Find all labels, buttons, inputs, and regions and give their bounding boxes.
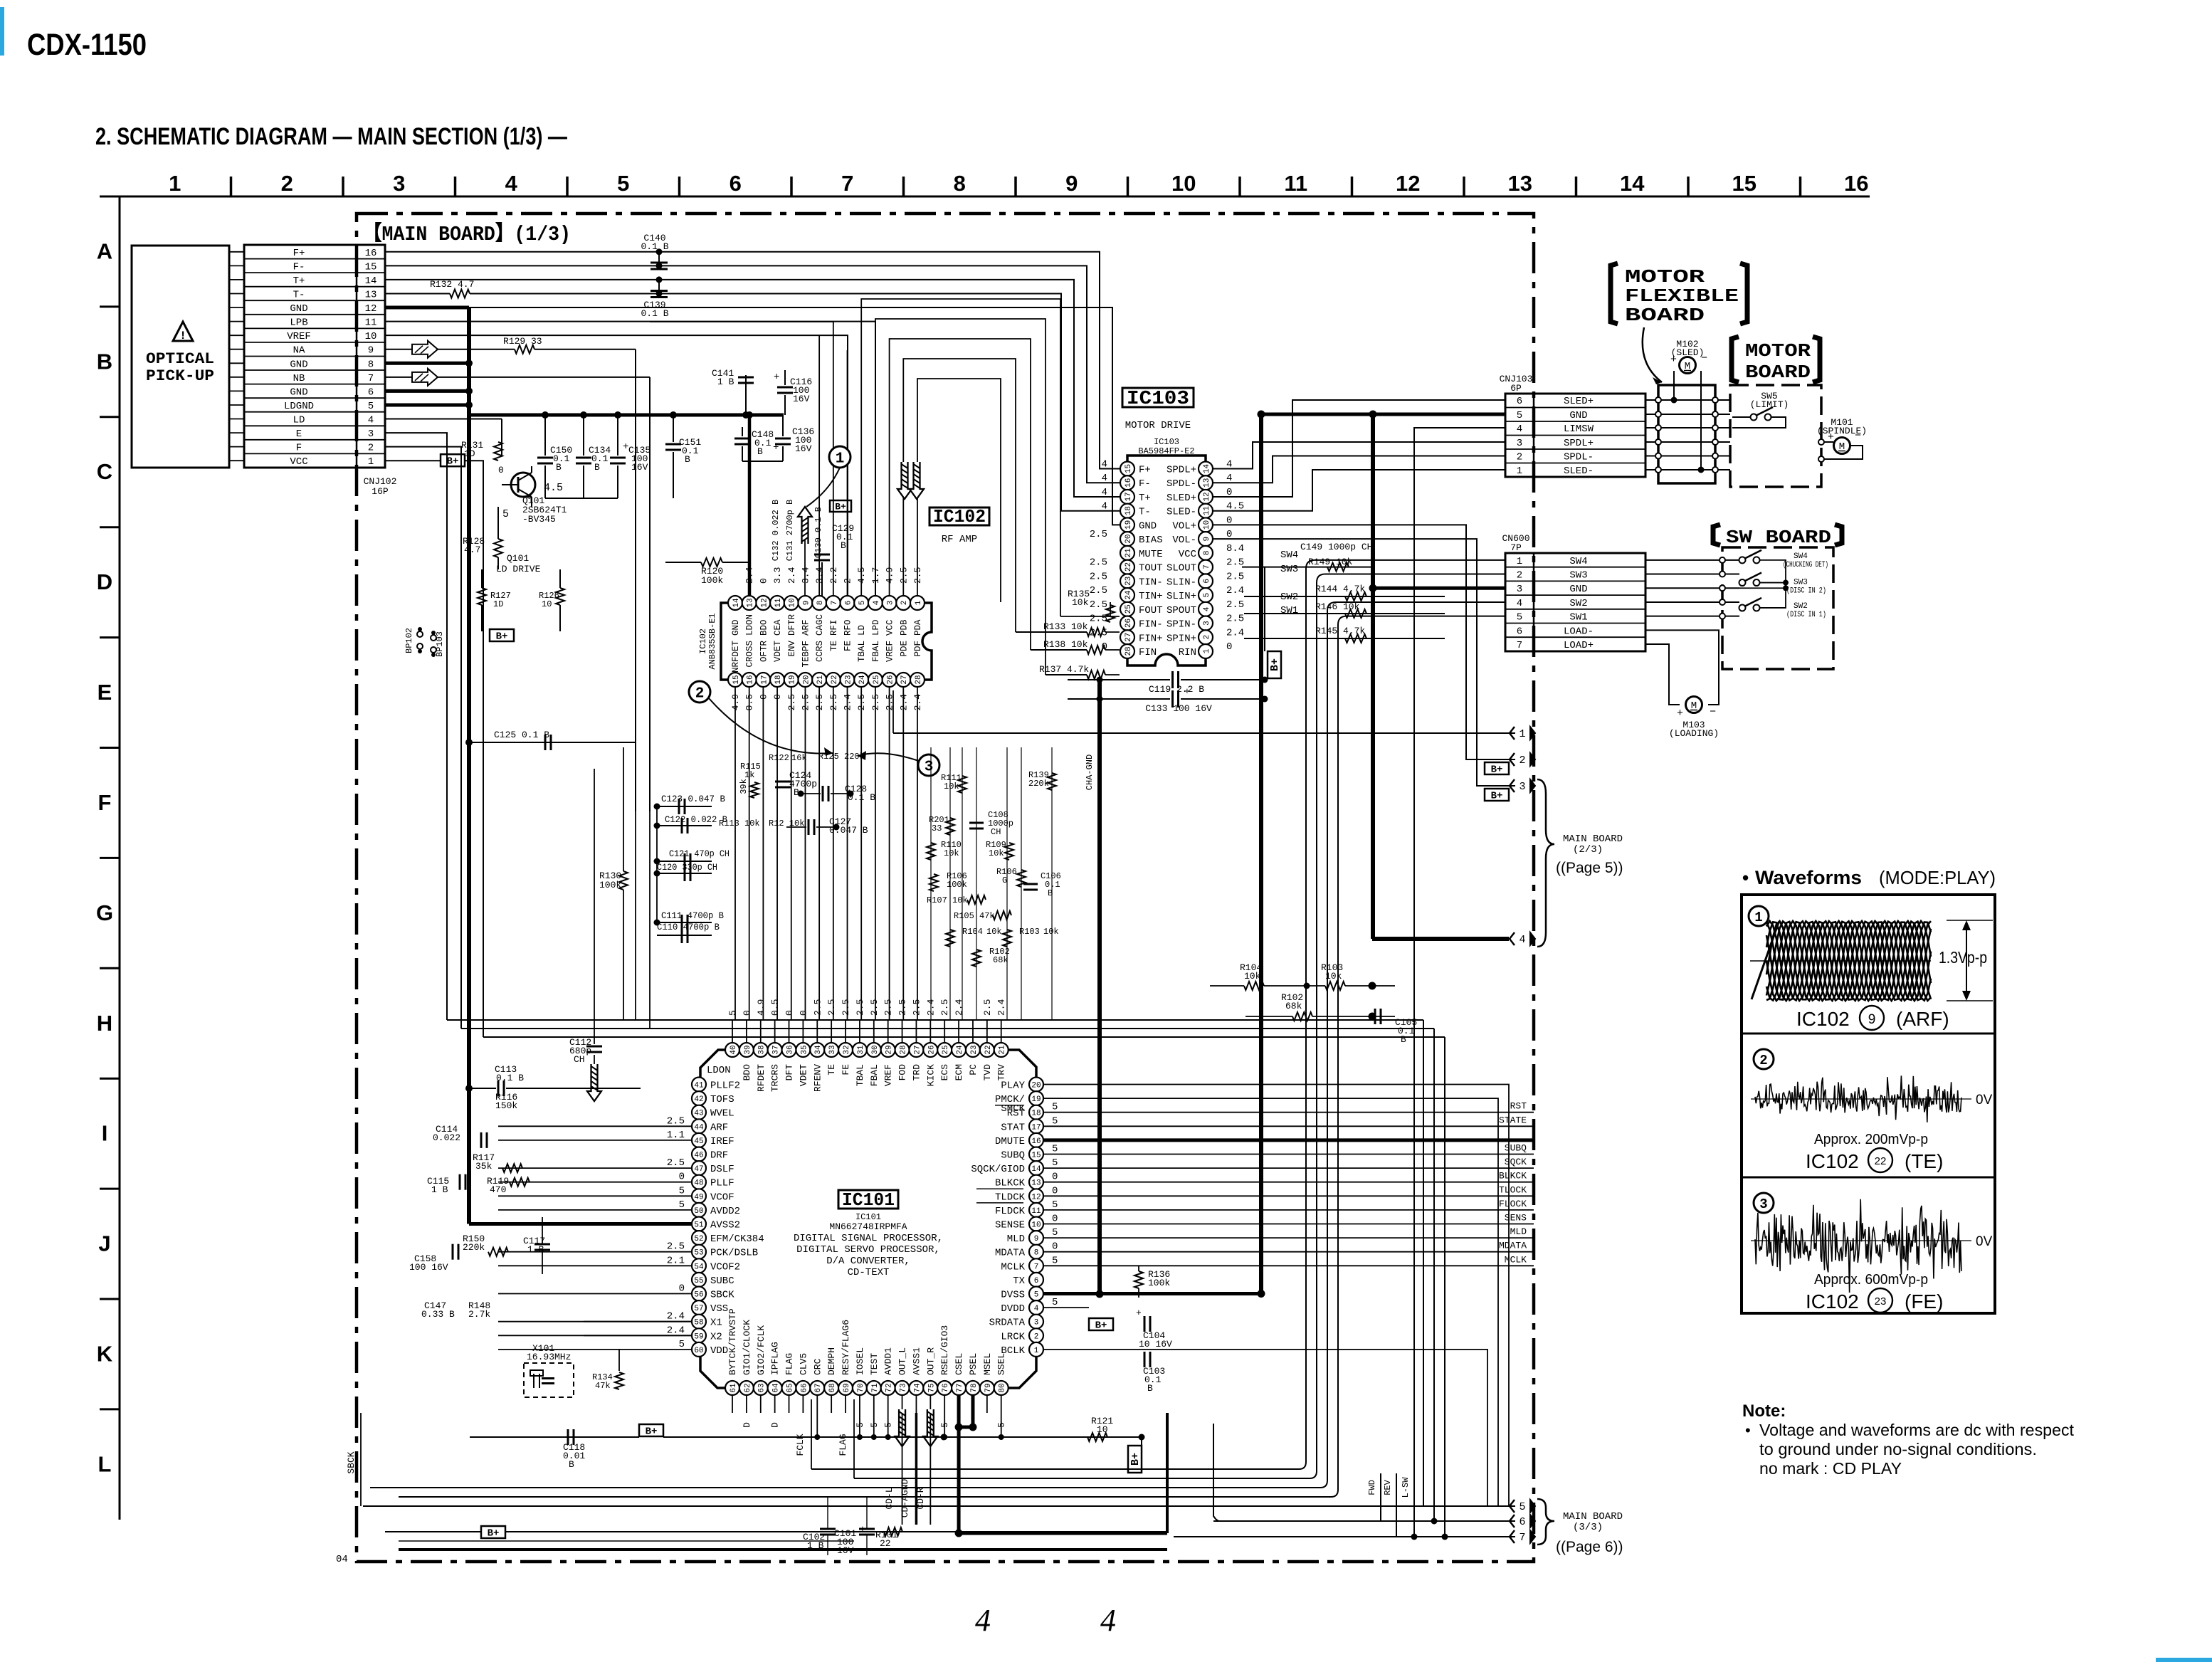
wire bundle IC102 upper mid: [847, 350, 848, 596]
svg-text:10k: 10k: [989, 848, 1004, 858]
IC103 label box: [1122, 388, 1194, 407]
svg-text:CLV5: CLV5: [798, 1353, 809, 1375]
svg-text:4.5: 4.5: [544, 482, 563, 494]
svg-text:CRC: CRC: [812, 1358, 823, 1375]
svg-text:4: 4: [1203, 606, 1211, 611]
svg-text:100k: 100k: [701, 575, 723, 586]
svg-text:to ground under no-signal cond: to ground under no-signal conditions.: [1759, 1440, 2037, 1458]
svg-text:75: 75: [927, 1383, 936, 1392]
svg-text:6: 6: [1203, 579, 1211, 584]
svg-text:LDON: LDON: [707, 1065, 731, 1076]
svg-text:C132 0.022 B: C132 0.022 B: [771, 500, 781, 561]
svg-text:4.9: 4.9: [756, 999, 767, 1016]
svg-text:10k: 10k: [944, 782, 959, 791]
svg-text:0.1 B: 0.1 B: [496, 1073, 524, 1083]
svg-text:OPTICAL: OPTICAL: [146, 350, 214, 368]
wires LOAD to M103: [1645, 630, 1719, 705]
svg-text:0: 0: [1052, 1214, 1058, 1225]
svg-text:14: 14: [1620, 171, 1645, 196]
svg-text:3.4: 3.4: [814, 567, 825, 584]
svg-text:2: 2: [1519, 754, 1525, 767]
svg-text:17: 17: [760, 675, 769, 684]
svg-text:AVSS2: AVSS2: [710, 1220, 740, 1231]
svg-text:2.5: 2.5: [1090, 599, 1107, 611]
IC101 pins top: [725, 1043, 1008, 1057]
svg-text:8: 8: [1034, 1249, 1039, 1258]
svg-text:SPDL+: SPDL+: [1564, 438, 1594, 449]
wire E: [385, 433, 447, 1020]
svg-text:5: 5: [858, 601, 867, 606]
svg-text:C122 0.022 B: C122 0.022 B: [665, 814, 727, 825]
svg-text:5: 5: [617, 171, 629, 196]
svg-text:19: 19: [1125, 520, 1133, 530]
svg-text:F-: F-: [293, 261, 305, 273]
svg-text:1: 1: [1519, 728, 1525, 740]
svg-text:0.1 B: 0.1 B: [641, 241, 668, 252]
svg-text:4: 4: [368, 415, 374, 426]
svg-text:((Page 5)): ((Page 5)): [1556, 860, 1623, 876]
svg-text:B+: B+: [1095, 1320, 1107, 1332]
svg-text:−: −: [1701, 352, 1707, 364]
capacitor C116 100 16V: [784, 370, 786, 385]
IC101 body: [700, 1050, 1036, 1388]
svg-text:27: 27: [900, 675, 909, 684]
svg-text:100k: 100k: [599, 880, 621, 890]
svg-text:2: 2: [695, 686, 705, 703]
svg-text:TE: TE: [826, 1064, 837, 1075]
svg-text:K: K: [97, 1342, 113, 1367]
svg-text:5: 5: [1052, 1255, 1058, 1266]
svg-text:no mark : CD PLAY: no mark : CD PLAY: [1759, 1459, 1902, 1478]
svg-text:16V: 16V: [631, 462, 648, 473]
svg-text:18: 18: [1031, 1110, 1041, 1118]
svg-text:Approx. 600mVp-p: Approx. 600mVp-p: [1814, 1272, 1928, 1288]
svg-text:2.5: 2.5: [869, 999, 880, 1016]
wire LPB to IC102: [385, 322, 875, 596]
IC103 pins left: [1120, 462, 1134, 658]
svg-text:41: 41: [694, 1081, 704, 1090]
svg-text:RFDET: RFDET: [756, 1064, 767, 1092]
svg-text:2.5: 2.5: [1090, 557, 1107, 569]
svg-text:C110 4700p B: C110 4700p B: [657, 922, 720, 932]
svg-text:(TE): (TE): [1905, 1150, 1943, 1172]
svg-text:BDO: BDO: [759, 619, 769, 636]
svg-text:DMUTE: DMUTE: [995, 1136, 1025, 1147]
svg-text:2.5: 2.5: [667, 1115, 685, 1127]
svg-text:PLLF: PLLF: [710, 1178, 734, 1189]
svg-text:23: 23: [1875, 1295, 1887, 1308]
svg-text:FIN: FIN: [1139, 647, 1157, 658]
svg-text:SPOUT: SPOUT: [1166, 605, 1196, 616]
svg-text:21: 21: [816, 675, 825, 685]
svg-text:9: 9: [1034, 1235, 1039, 1243]
svg-text:X1: X1: [710, 1317, 722, 1329]
svg-text:34: 34: [814, 1045, 823, 1055]
svg-text:2: 2: [281, 171, 293, 196]
svg-text:10k: 10k: [1244, 971, 1261, 982]
svg-text:VSS: VSS: [710, 1303, 728, 1315]
svg-text:150k: 150k: [495, 1100, 517, 1111]
svg-text:B: B: [97, 349, 112, 374]
switch SW3 (DISC IN 2): [1739, 579, 1746, 586]
svg-text:16V: 16V: [793, 394, 810, 404]
svg-text:2.5: 2.5: [1226, 614, 1244, 625]
svg-text:26: 26: [1125, 619, 1133, 628]
svg-text:69: 69: [843, 1383, 851, 1392]
svg-text:TIN-: TIN-: [1139, 577, 1163, 588]
hatched arrows pair: [897, 462, 912, 499]
svg-text:ANB835SB-E1: ANB835SB-E1: [707, 613, 717, 669]
svg-text:LIMSW: LIMSW: [1564, 424, 1594, 435]
svg-text:B: B: [685, 454, 690, 465]
wires IC103 left lower: [1060, 616, 1120, 617]
SW board dashed box: [1722, 547, 1833, 669]
svg-text:REV: REV: [1383, 1479, 1393, 1495]
svg-text:6: 6: [1517, 396, 1522, 407]
svg-text:PC: PC: [968, 1064, 979, 1075]
svg-text:MAIN BOARD: MAIN BOARD: [1563, 833, 1623, 845]
svg-text:LD DRIVE: LD DRIVE: [496, 564, 541, 574]
svg-text:12: 12: [1031, 1193, 1041, 1201]
svg-text:R107 10k: R107 10k: [927, 895, 968, 905]
svg-text:5: 5: [1052, 1102, 1058, 1113]
svg-text:C125 0.1 B: C125 0.1 B: [494, 730, 549, 740]
svg-text:15: 15: [732, 675, 741, 684]
svg-text:72: 72: [885, 1383, 894, 1392]
svg-text:5: 5: [1052, 1297, 1058, 1308]
page connector chevron 5: [1510, 1500, 1515, 1513]
svg-text:9: 9: [1065, 171, 1078, 196]
switch SW4 (CHUCKING DET): [1739, 557, 1746, 563]
IC101 top pin stubs: [732, 1020, 1001, 1043]
wire DVSS bold: [1043, 1292, 1261, 1295]
wire LD: [385, 419, 502, 420]
svg-text:16: 16: [1844, 171, 1868, 196]
svg-text:F-: F-: [1139, 478, 1151, 490]
svg-text:DFT: DFT: [784, 1064, 795, 1081]
svg-text:(FE): (FE): [1905, 1290, 1943, 1313]
wire F- CNJ102 to IC103 pin16: [385, 265, 1120, 483]
svg-text:13: 13: [1203, 478, 1211, 488]
svg-text:GND: GND: [1569, 584, 1587, 595]
wire bottom bold rail: [399, 1548, 1167, 1551]
svg-text:ENV: ENV: [787, 641, 797, 657]
svg-text:PLAY: PLAY: [1001, 1080, 1025, 1092]
motor M103 (LOADING): [1686, 697, 1702, 713]
svg-text:1: 1: [836, 451, 845, 468]
capacitor C134 0.1 B: [583, 415, 584, 456]
svg-text:LRCK: LRCK: [1001, 1331, 1025, 1342]
svg-text:13: 13: [365, 290, 377, 301]
svg-text:4: 4: [1517, 424, 1522, 435]
svg-text:R122: R122: [769, 753, 789, 763]
svg-text:MDATA: MDATA: [1499, 1241, 1527, 1251]
svg-text:22: 22: [984, 1045, 993, 1054]
wire SLED+ IC103 to CNJ103: [1213, 400, 1505, 497]
svg-text:27: 27: [913, 1045, 922, 1054]
IC103 pins right: [1199, 462, 1213, 658]
svg-text:VCC: VCC: [1179, 549, 1196, 560]
svg-text:47k: 47k: [595, 1381, 611, 1391]
B+ box above IC102: [830, 500, 851, 512]
capacitor C125 0.1 B: [469, 742, 636, 743]
svg-text:53: 53: [694, 1249, 703, 1258]
svg-text:VDD: VDD: [710, 1345, 728, 1357]
page connector chevron 7: [1510, 1530, 1515, 1543]
wire VREF to IC102: [385, 335, 848, 596]
svg-text:STAT: STAT: [1001, 1122, 1025, 1133]
IC101 bottom voltages: [742, 1422, 1007, 1439]
svg-text:TRCRS: TRCRS: [770, 1064, 781, 1092]
svg-text:T+: T+: [1139, 493, 1151, 504]
svg-text:RST: RST: [1510, 1101, 1527, 1112]
svg-text:VCC: VCC: [290, 456, 307, 468]
svg-text:GIO1/CLOCK: GIO1/CLOCK: [742, 1320, 752, 1375]
svg-text:0V: 0V: [1976, 1093, 1993, 1108]
svg-text:EFM/CK384: EFM/CK384: [710, 1234, 764, 1245]
wire bottom rail with B+: [470, 1436, 639, 1438]
svg-text:14: 14: [732, 598, 741, 608]
svg-text:1D: 1D: [464, 448, 475, 459]
svg-text:15: 15: [1125, 464, 1133, 473]
IC102 pins top: [728, 596, 925, 610]
capacitor C135 100 16V: [617, 415, 618, 456]
svg-text:35k: 35k: [475, 1161, 493, 1172]
svg-text:71: 71: [871, 1383, 880, 1393]
svg-text:SLED+: SLED+: [1564, 396, 1594, 407]
IC102 body: [721, 603, 932, 680]
svg-text:77: 77: [956, 1383, 964, 1392]
svg-text:SW3: SW3: [1794, 579, 1808, 587]
bold verticals pins 77 78: [957, 1395, 961, 1533]
svg-text:AVSS1: AVSS1: [911, 1347, 922, 1375]
svg-text:2: 2: [900, 601, 909, 606]
svg-text:10: 10: [1031, 1221, 1041, 1229]
svg-text:CH: CH: [574, 1054, 585, 1065]
svg-text:FLDCK: FLDCK: [995, 1206, 1026, 1217]
svg-text:ECS: ECS: [939, 1064, 950, 1081]
svg-text:15: 15: [1732, 171, 1757, 196]
svg-text:2: 2: [843, 578, 853, 584]
svg-text:3: 3: [925, 759, 934, 776]
svg-text:G: G: [96, 900, 113, 925]
svg-text:BYTCK/TRVSTP: BYTCK/TRVSTP: [727, 1308, 738, 1375]
svg-text:SBCK: SBCK: [710, 1290, 734, 1301]
svg-text:22: 22: [1125, 562, 1133, 572]
svg-text:R12 10k: R12 10k: [769, 819, 804, 829]
svg-text:SW2: SW2: [1794, 602, 1808, 611]
wire VCC with B+: [385, 460, 441, 461]
svg-text:PDF: PDF: [913, 641, 923, 657]
svg-text:26: 26: [887, 675, 895, 684]
svg-text:SW1: SW1: [1569, 612, 1587, 624]
svg-text:0: 0: [742, 1010, 752, 1016]
horizontal bus above IC101: [447, 1019, 1423, 1021]
svg-text:BP103: BP103: [435, 631, 445, 657]
svg-text:C119 2.2 B: C119 2.2 B: [1149, 684, 1204, 695]
svg-text:2.4: 2.4: [1226, 585, 1244, 596]
svg-text:63: 63: [758, 1383, 767, 1392]
svg-text:6: 6: [1517, 626, 1522, 637]
svg-text:PDB: PDB: [899, 619, 909, 636]
leader arrow to flexible board: [1643, 327, 1662, 382]
svg-text:FBAL: FBAL: [869, 1064, 880, 1086]
svg-text:F: F: [296, 443, 302, 454]
svg-text:VREF: VREF: [883, 1064, 894, 1086]
svg-text:IC101: IC101: [855, 1212, 881, 1222]
svg-text:13: 13: [747, 598, 755, 607]
svg-text:21: 21: [999, 1045, 1007, 1055]
svg-text:65: 65: [786, 1383, 794, 1392]
svg-text:3.4: 3.4: [800, 567, 811, 584]
IC102 label box: [929, 507, 989, 525]
svg-text:16.93MHz: 16.93MHz: [527, 1352, 571, 1362]
svg-text:BLKCK: BLKCK: [1499, 1171, 1527, 1182]
svg-text:11: 11: [1284, 171, 1307, 196]
svg-text:5: 5: [1052, 1227, 1058, 1238]
svg-text:CAGC: CAGC: [815, 614, 825, 636]
waveform 1 marker: [1749, 906, 1769, 926]
svg-text:3: 3: [368, 428, 374, 440]
svg-text:SW2: SW2: [1280, 591, 1298, 603]
grid column numbers 1-16: [169, 171, 1868, 196]
svg-text:Waveforms: Waveforms: [1755, 867, 1862, 888]
svg-text:MOTOR: MOTOR: [1745, 340, 1811, 362]
svg-text:CDX-1150: CDX-1150: [27, 28, 147, 62]
svg-text:2.7k: 2.7k: [468, 1309, 490, 1320]
svg-text:KICK: KICK: [925, 1064, 936, 1086]
svg-text:CD-AGND: CD-AGND: [900, 1478, 910, 1518]
svg-text:11: 11: [1031, 1207, 1041, 1216]
svg-text:GND: GND: [290, 386, 307, 398]
svg-text:H: H: [97, 1011, 112, 1036]
svg-text:TLOCK: TLOCK: [1499, 1184, 1527, 1195]
svg-text:16P: 16P: [372, 486, 389, 497]
svg-text:3: 3: [1517, 438, 1522, 449]
svg-text:7: 7: [368, 373, 374, 384]
svg-text:2.5: 2.5: [667, 1241, 685, 1253]
bold rail y583: [469, 414, 784, 417]
svg-text:SPIN+: SPIN+: [1166, 633, 1196, 644]
svg-text:2.4: 2.4: [1226, 627, 1244, 638]
svg-text:8: 8: [816, 601, 825, 606]
svg-text:MCLK: MCLK: [1001, 1261, 1025, 1273]
svg-text:(DISC IN 1): (DISC IN 1): [1786, 611, 1826, 619]
svg-text:25: 25: [942, 1045, 950, 1054]
svg-text:0V: 0V: [1976, 1234, 1993, 1249]
vertical FCLK FLAG: [811, 1399, 812, 1469]
svg-text:B: B: [594, 462, 600, 473]
svg-text:SPDL-: SPDL-: [1166, 478, 1196, 490]
B+ box DVDD: [1089, 1318, 1113, 1330]
IC101 pin names right: [971, 1080, 1058, 1357]
page connector chevron 6: [1510, 1515, 1515, 1527]
svg-text:10: 10: [1171, 171, 1196, 196]
svg-text:B+: B+: [835, 502, 846, 512]
wires IC101 left pins: [498, 1126, 692, 1350]
svg-text:42: 42: [694, 1095, 703, 1104]
svg-text:TOFS: TOFS: [710, 1094, 734, 1105]
svg-text:VOL-: VOL-: [1172, 535, 1196, 546]
wire CHA-GND bold: [1097, 680, 1102, 1294]
svg-text:FE: FE: [843, 641, 853, 651]
svg-text:LD: LD: [857, 625, 867, 636]
SW BOARD label: [1713, 525, 1720, 545]
svg-text:C149 1000p CH: C149 1000p CH: [1300, 542, 1372, 552]
svg-text:VREF: VREF: [885, 641, 895, 662]
wire T+ CNJ102 to IC103 pin17: [385, 280, 1120, 497]
svg-text:2.4: 2.4: [786, 567, 797, 584]
svg-text:(3/3): (3/3): [1573, 1522, 1603, 1533]
svg-text:B: B: [569, 1459, 574, 1470]
svg-text:FLOCK: FLOCK: [1499, 1199, 1527, 1209]
svg-text:66: 66: [800, 1383, 809, 1392]
svg-text:NB: NB: [293, 373, 305, 384]
svg-text:2.5: 2.5: [897, 999, 908, 1016]
svg-text:MCLK: MCLK: [1505, 1254, 1527, 1265]
svg-text:SW3: SW3: [1280, 564, 1298, 575]
svg-text:4: 4: [1034, 1305, 1039, 1313]
svg-text:5: 5: [1034, 1290, 1039, 1299]
svg-text:NA: NA: [293, 345, 305, 357]
svg-text:+: +: [1677, 708, 1683, 720]
svg-text:3: 3: [1519, 781, 1525, 793]
svg-text:VOL+: VOL+: [1172, 520, 1196, 532]
svg-text:1D: 1D: [493, 599, 503, 609]
svg-text:46: 46: [694, 1151, 703, 1159]
capacitor C133 100 16V: [1100, 698, 1170, 700]
svg-text:2.5: 2.5: [1226, 599, 1244, 611]
svg-text:49: 49: [694, 1193, 703, 1201]
svg-text:29: 29: [885, 1045, 894, 1054]
svg-text:LOAD-: LOAD-: [1564, 626, 1594, 637]
svg-text:220k: 220k: [1028, 779, 1049, 789]
svg-text:SQCK: SQCK: [1505, 1157, 1527, 1167]
page connector chevron 3: [1510, 779, 1515, 792]
svg-text:4.7: 4.7: [464, 545, 480, 555]
svg-text:470: 470: [490, 1184, 506, 1195]
svg-text:CD-TEXT: CD-TEXT: [848, 1267, 890, 1278]
svg-text:+: +: [1670, 354, 1677, 366]
hatched arrow below C112: [587, 1064, 601, 1101]
svg-text:2.4: 2.4: [996, 999, 1007, 1016]
svg-text:MDATA: MDATA: [995, 1248, 1026, 1259]
svg-text:3.3: 3.3: [772, 567, 783, 584]
svg-text:2.5: 2.5: [1090, 529, 1107, 540]
wire F+ CNJ102 to IC103 pin15: [385, 252, 1120, 469]
svg-text:11: 11: [365, 317, 377, 329]
svg-text:10k: 10k: [986, 927, 1002, 937]
svg-text:59: 59: [694, 1332, 703, 1341]
svg-text:7P: 7P: [1510, 542, 1522, 553]
svg-text:LOAD+: LOAD+: [1564, 640, 1594, 651]
svg-text:DEMPH: DEMPH: [826, 1347, 837, 1375]
svg-text:TOUT: TOUT: [1139, 563, 1163, 574]
svg-text:16k: 16k: [791, 753, 807, 763]
svg-text:3: 3: [1759, 1196, 1767, 1212]
IC102 pins bottom: [728, 673, 925, 687]
svg-text:2.5: 2.5: [841, 999, 851, 1016]
arrow marker NA: [412, 341, 438, 358]
IC101 bottom pin stubs: [732, 1395, 1001, 1413]
svg-text:2: 2: [1517, 452, 1522, 463]
svg-text:F+: F+: [293, 248, 305, 259]
svg-text:12: 12: [365, 303, 377, 315]
svg-text:7: 7: [1034, 1263, 1039, 1271]
svg-text:VREF: VREF: [287, 331, 311, 342]
svg-text:MLD: MLD: [1510, 1226, 1527, 1237]
wire LIMSW long vertical: [1414, 428, 1505, 1537]
